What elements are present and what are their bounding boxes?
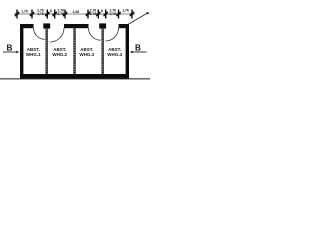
svg-text:1,76: 1,76 xyxy=(122,9,129,13)
svg-text:2,76: 2,76 xyxy=(109,12,116,16)
svg-text:WHG.4: WHG.4 xyxy=(107,52,122,57)
svg-text:2,76: 2,76 xyxy=(57,12,64,16)
svg-text:B: B xyxy=(135,44,141,53)
svg-text:8: 8 xyxy=(50,9,52,13)
svg-text:B: B xyxy=(7,44,13,53)
svg-text:WHG.1: WHG.1 xyxy=(26,52,41,57)
svg-text:1,76: 1,76 xyxy=(21,10,28,14)
svg-text:2,76: 2,76 xyxy=(37,12,44,16)
svg-text:2,38: 2,38 xyxy=(72,10,79,14)
svg-text:WHG.2: WHG.2 xyxy=(52,52,67,57)
svg-text:WHG.3: WHG.3 xyxy=(79,52,94,57)
svg-text:2,76: 2,76 xyxy=(90,12,97,16)
svg-text:8: 8 xyxy=(101,9,103,13)
